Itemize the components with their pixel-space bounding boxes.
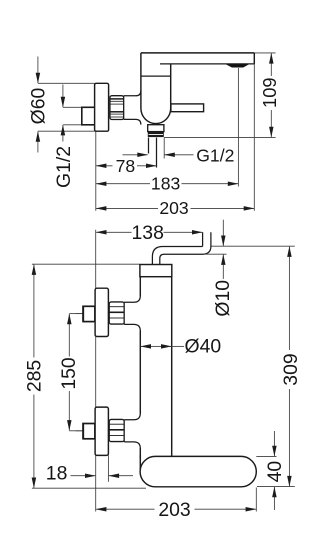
body left edge segment 2: [139, 331, 141, 414]
dim G1/2 wall union lower arrow: [62, 125, 64, 141]
outlet nut right extension line: [163, 138, 165, 159]
svg-text:18: 18: [46, 462, 68, 484]
lever handle: [171, 104, 204, 112]
body top cap: [140, 265, 172, 277]
dim Ø60 lower arrow: [37, 132, 39, 153]
dim 109 upper arrow: [270, 53, 272, 76]
outlet nut: [148, 125, 164, 132]
dim Ø40 right arrow: [156, 345, 171, 347]
aerator extension line: [237, 68, 239, 187]
lower connector outline: [124, 413, 140, 448]
dim 183 left segment: [96, 183, 150, 185]
svg-text:40: 40: [264, 461, 286, 483]
dim 18 right-pointing arrow: [71, 475, 96, 477]
dim 150 upper segment: [68, 314, 70, 357]
dim G1/2 outlet right arrow: [165, 154, 194, 156]
outlet pipe left line: [148, 138, 150, 154]
dim Ø40 leader: [172, 345, 184, 347]
knurled nut body: [110, 96, 124, 120]
svg-text:285: 285: [23, 360, 45, 392]
wall union square: [82, 107, 95, 125]
dim G1/2 wall union upper extension: [63, 106, 82, 108]
escutcheon face extension: [107, 455, 109, 481]
dim 138 left segment: [96, 231, 131, 233]
spout (front): [140, 456, 256, 486]
svg-text:109: 109: [259, 77, 280, 108]
dim 109 lower arrow: [270, 110, 272, 137]
svg-text:203: 203: [159, 198, 189, 218]
body left edge segment 1: [139, 277, 141, 297]
dim 150 upper extension stub: [69, 313, 83, 315]
dim 285 upper segment: [33, 265, 35, 358]
escutcheon plate (side): [95, 83, 109, 131]
body joint line: [141, 75, 171, 77]
dim 78 right arrow: [137, 165, 156, 167]
upper hex nut: [109, 302, 124, 324]
dim 78 left arrow: [96, 165, 112, 167]
dim Ø10 upper arrow: [222, 220, 224, 246]
dim Ø60 bottom extension line: [38, 130, 109, 132]
outlet pipe right line: [156, 138, 158, 168]
mixer body outline: [141, 53, 171, 124]
body left edge into spout cap: [139, 455, 141, 470]
svg-text:138: 138: [132, 222, 164, 244]
dim Ø10 bottom extension: [203, 253, 226, 255]
wall line: [95, 230, 97, 512]
knurled nut stripes: [110, 99, 123, 117]
dim 203 top-view right segment: [191, 207, 255, 209]
dim 109 top extension: [254, 52, 275, 54]
upper escutcheon: [95, 288, 108, 336]
svg-text:78: 78: [116, 156, 136, 176]
dim Ø60 upper arrow: [37, 57, 39, 84]
dim Ø40 left arrow: [141, 345, 156, 347]
dim G1/2 wall union upper arrow: [62, 85, 64, 108]
svg-text:183: 183: [151, 173, 181, 193]
lower union pipe lip: [82, 423, 84, 440]
svg-text:203: 203: [158, 499, 190, 521]
upper union pipe stub centerline: [76, 313, 84, 315]
svg-text:Ø40: Ø40: [185, 335, 222, 357]
dim 109 bottom extension: [164, 136, 275, 138]
dim 285 top extension: [32, 263, 140, 265]
dim G1/2 outlet left arrow: [123, 154, 148, 156]
lower union pipe stub centerline: [76, 430, 84, 432]
upper union pipe lip: [82, 306, 84, 323]
dim 150 lower extension stub: [69, 430, 83, 432]
dim 285 bottom extension: [32, 487, 146, 489]
outlet collar band: [148, 132, 164, 137]
lower connector fill: [124, 420, 140, 442]
aerator: [226, 64, 249, 67]
svg-text:Ø10: Ø10: [212, 280, 234, 317]
dim 40 top extension: [256, 455, 276, 457]
spout right extension line: [253, 64, 255, 211]
mixer body fill: [141, 53, 171, 124]
upper connector outline: [124, 296, 140, 331]
dim 203 bottom left segment: [96, 508, 154, 510]
riser pipe outer: [152, 232, 211, 264]
svg-text:309: 309: [280, 353, 302, 385]
upper connector fill: [124, 302, 140, 324]
dim 18 left-pointing arrow: [109, 475, 133, 477]
spout end edge: [253, 53, 255, 64]
lower hex nut flats: [110, 423, 124, 425]
dim 309 upper segment: [288, 247, 290, 350]
dim 40 upper arrow: [273, 431, 275, 456]
dim Ø10 lower arrow: [222, 255, 224, 279]
lower escutcheon: [95, 407, 108, 455]
svg-text:G1/2: G1/2: [196, 145, 234, 165]
upper hex nut flats: [110, 306, 124, 308]
spout bottom line: [160, 63, 254, 65]
lower hex nut: [109, 419, 124, 441]
dim Ø60 top extension line: [38, 82, 95, 84]
body right edge: [171, 277, 173, 457]
dim 309 top extension: [212, 245, 295, 247]
upper union pipe square: [83, 306, 95, 321]
dim G1/2 wall union lower extension: [63, 124, 82, 126]
connector fill: [124, 96, 141, 120]
connector outline with fillets: [124, 91, 141, 125]
wall extension line left datum: [95, 131, 97, 211]
svg-text:G1/2: G1/2: [53, 146, 75, 188]
dim 285 lower segment: [33, 395, 35, 488]
dim 309 lower segment: [288, 389, 290, 486]
dim 138 right segment: [164, 231, 203, 233]
spout top line: [141, 52, 254, 54]
lower union pipe square: [83, 424, 95, 439]
svg-text:Ø60: Ø60: [28, 87, 50, 124]
dim 203 bottom right segment: [195, 508, 256, 510]
spout right lower extension: [255, 488, 257, 512]
svg-text:150: 150: [58, 357, 80, 390]
dim 183 right segment: [182, 183, 239, 185]
dim 150 lower segment: [68, 391, 70, 430]
dim 203 top-view left segment: [96, 207, 158, 209]
dim 40 lower arrow: [273, 487, 275, 510]
dim 309 bottom extension: [257, 486, 295, 488]
body left edge segment 3: [139, 448, 141, 459]
